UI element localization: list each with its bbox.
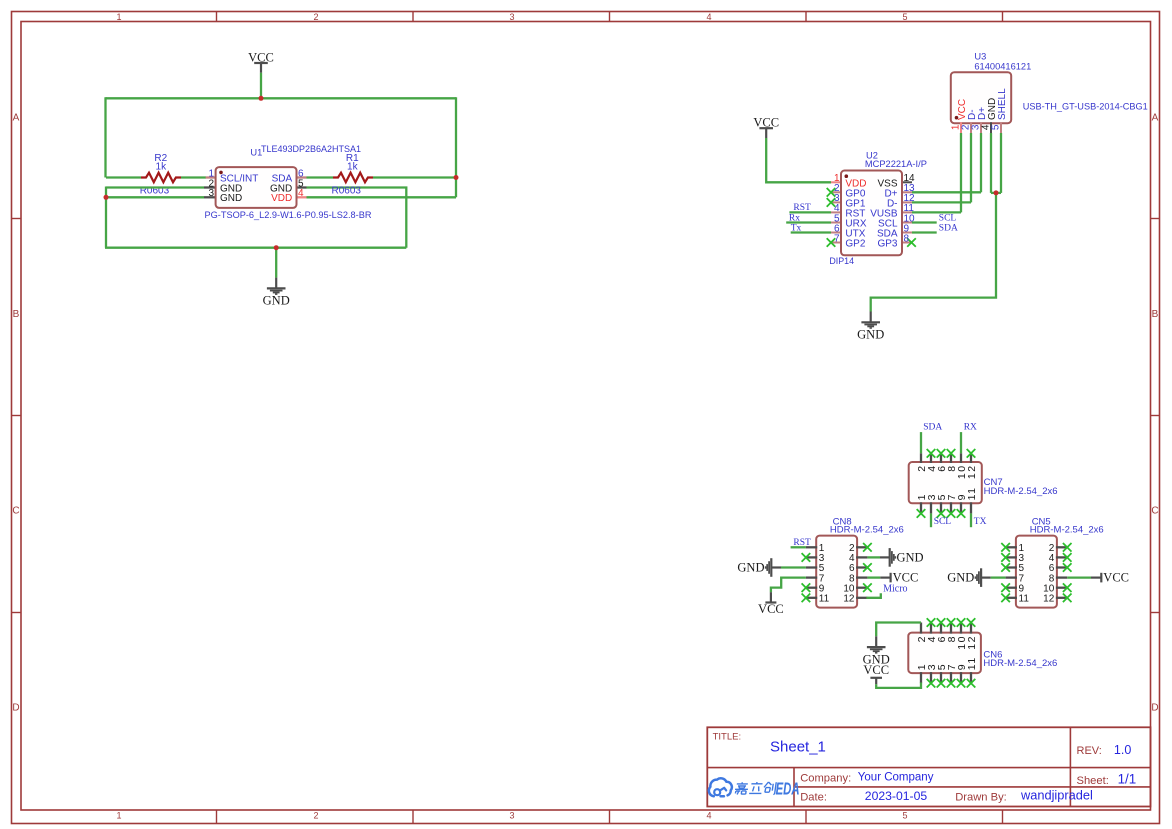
svg-text:Your Company: Your Company	[858, 772, 934, 784]
wire U1 pin 3 to left rail	[106, 196, 204, 198]
wire to GND flag	[275, 248, 277, 278]
frame row tick left	[12, 612, 22, 614]
wire CN8 pin 7 to VCC	[771, 578, 806, 593]
svg-text:RX: RX	[964, 423, 977, 433]
wire USB GND to flag	[871, 193, 996, 312]
no-connect X CN6 bottom	[947, 679, 956, 688]
title block divider vertical rev	[1069, 727, 1071, 806]
svg-text:GND: GND	[897, 550, 924, 564]
U2 pin 1 stub	[831, 181, 842, 183]
U2 pin 10 stub	[901, 222, 912, 224]
no-connect X CN7 top	[967, 449, 976, 458]
frame row tick left	[12, 218, 22, 220]
CN7 pin 5 stub	[940, 502, 942, 513]
wire left drop to R2	[104, 97, 106, 177]
frame column tick bottom	[805, 810, 807, 824]
wire U1 pin 6 to R1	[307, 176, 334, 178]
net label Micro wire (CN8 pin 12)	[866, 593, 880, 598]
svg-text:2023-01-05: 2023-01-05	[865, 789, 928, 803]
svg-text:11: 11	[1019, 594, 1030, 605]
CN8 pin 7 stub	[806, 576, 817, 578]
svg-text:VCC: VCC	[893, 570, 919, 584]
CN5 pin 10 stub	[1056, 587, 1067, 589]
svg-text:Drawn By:: Drawn By:	[955, 791, 1007, 803]
VCC flag CN8 pin 8	[880, 573, 890, 583]
svg-text:12: 12	[966, 464, 978, 479]
no-connect X CN5 left	[1001, 583, 1010, 592]
no-connect X CN6 top	[927, 618, 936, 627]
no-connect X CN8 pin 3	[802, 553, 811, 562]
VCC flag	[759, 128, 773, 138]
svg-text:wandjipradel: wandjipradel	[1020, 788, 1093, 803]
wire CN8 pin 4 to GND	[867, 556, 880, 558]
frame column tick bottom	[609, 810, 611, 824]
junction GND rail	[274, 245, 279, 250]
svg-text:TLE493DP2B6A2HTSA1: TLE493DP2B6A2HTSA1	[261, 144, 361, 154]
svg-text:12: 12	[843, 594, 855, 605]
CN5 pin 11 stub	[1006, 597, 1017, 599]
connector CN5 body	[1016, 536, 1057, 608]
svg-text:11: 11	[966, 486, 978, 500]
wire left rail vertical	[105, 187, 107, 248]
ground GND flag CN8 pin 5	[766, 558, 781, 577]
CN6 pin 11 stub	[970, 672, 972, 683]
svg-text:R0603: R0603	[332, 185, 362, 196]
net label SCL wire (CN7)	[930, 513, 932, 527]
wire VCC to CN6 pin 1	[876, 683, 921, 688]
no-connect X CN5 left	[1001, 594, 1010, 603]
USB connector U3 body	[951, 72, 1011, 123]
U2 pin 9 stub	[901, 232, 912, 234]
svg-text:11: 11	[819, 594, 830, 605]
no-connect X U2 pin 8	[907, 238, 916, 247]
net label Tx wire	[791, 231, 831, 233]
svg-text:1k: 1k	[156, 162, 168, 173]
U1 pin 5 stub	[296, 186, 307, 188]
no-connect X CN7 bottom	[947, 509, 956, 518]
wire GND-SHELL tie	[991, 192, 1001, 194]
U2 pin 7 stub	[831, 242, 842, 244]
svg-text:5: 5	[902, 12, 907, 22]
svg-text:GND: GND	[737, 561, 764, 575]
wire R2 left lead wire	[106, 176, 141, 178]
wire U1 pin 5 to GND rail	[307, 188, 407, 248]
frame row tick left	[12, 415, 22, 417]
no-connect X CN6 bottom	[937, 679, 946, 688]
no-connect X CN7 bottom	[937, 509, 946, 518]
U1 pin 2 stub	[204, 186, 217, 188]
svg-text:Date:: Date:	[800, 791, 827, 803]
no-connect X CN8 pin 9	[802, 583, 811, 592]
logo JLC EDA cloud icon	[709, 778, 732, 796]
svg-text:PG-TSOP-6_L2.9-W1.6-P0.95-LS2.: PG-TSOP-6_L2.9-W1.6-P0.95-LS2.8-BR	[205, 210, 372, 220]
net label SCL wire	[912, 221, 937, 223]
no-connect X CN8 pin 2	[863, 543, 872, 552]
wire GND to CN8 pin 5	[781, 566, 806, 568]
no-connect X CN6 top	[957, 618, 966, 627]
U3 pin 3 stub	[980, 122, 982, 133]
svg-text:GP3: GP3	[877, 239, 897, 250]
U2 pin 13 stub	[901, 191, 912, 193]
wire U1 pin 2 to left rail	[106, 186, 204, 188]
CN6 pin 2 stub	[920, 623, 922, 634]
CN8 pin 10 stub	[856, 587, 867, 589]
wire U2 VUSB to USB VCC	[912, 211, 961, 213]
no-connect X CN5 left	[1001, 543, 1010, 552]
svg-text:C: C	[1151, 506, 1158, 517]
svg-text:A: A	[13, 113, 20, 124]
svg-text:3: 3	[509, 811, 514, 821]
resistor R2	[141, 173, 181, 183]
U3 pin 5 stub	[1000, 122, 1002, 133]
CN8 pin 1 stub	[806, 546, 817, 548]
net label Rx wire	[786, 221, 831, 223]
CN6 pin 12 stub	[970, 623, 972, 634]
no-connect X U2 pin 7	[827, 238, 836, 247]
U2 pin 6 stub	[831, 232, 842, 234]
CN7 pin 8 stub	[950, 453, 952, 463]
CN6 pin 8 stub	[950, 623, 952, 634]
no-connect X CN5 right	[1063, 594, 1072, 603]
CN6 pin 10 stub	[960, 623, 962, 634]
no-connect X CN6 top	[947, 618, 956, 627]
ground GND flag CN5 pin 7	[975, 568, 990, 587]
U1 pin-1 dot	[219, 171, 223, 175]
no-connect X U2 pin 3	[827, 198, 836, 207]
wire U2 D+ to USB	[912, 191, 981, 193]
wire USB SHELL vertical	[1000, 133, 1002, 193]
wire CN6 pin 2 to GND	[876, 623, 921, 637]
svg-text:SDA: SDA	[939, 224, 958, 234]
svg-text:1.0: 1.0	[1114, 743, 1131, 757]
svg-text:EDA: EDA	[776, 779, 800, 799]
junction right rail / R1	[454, 175, 459, 180]
svg-text:TITLE:: TITLE:	[713, 732, 742, 743]
IC U1 body	[216, 167, 297, 208]
logo text JiaLiChuang (vector strokes)	[734, 782, 749, 794]
CN7 pin 11 stub	[970, 502, 972, 513]
CN6 pin 9 stub	[960, 672, 962, 683]
IC U2 body	[841, 171, 902, 256]
connector CN6 body	[908, 633, 981, 674]
junction VCC / top rail	[259, 96, 264, 101]
svg-text:Rx: Rx	[789, 213, 800, 223]
frame column tick top	[805, 12, 807, 22]
CN7 pin 4 stub	[930, 453, 932, 463]
svg-text:4: 4	[298, 188, 304, 199]
frame column tick top	[412, 12, 414, 22]
svg-text:GND: GND	[857, 328, 884, 342]
CN5 pin 12 stub	[1056, 597, 1067, 599]
net label RST wire (CN8)	[791, 546, 806, 548]
svg-text:B: B	[1152, 309, 1159, 320]
svg-text:SDA: SDA	[923, 423, 942, 433]
wire VCC stem	[260, 73, 262, 99]
svg-text:D: D	[12, 703, 19, 714]
svg-text:RST: RST	[793, 538, 811, 548]
no-connect X CN6 top	[967, 618, 976, 627]
svg-text:1: 1	[116, 811, 121, 821]
svg-text:HDR-M-2.54_2x6: HDR-M-2.54_2x6	[1030, 525, 1104, 536]
VCC flag	[254, 63, 268, 73]
svg-text:TX: TX	[974, 517, 987, 527]
wire USB D+ vertical	[980, 133, 982, 192]
frame row tick right	[1151, 415, 1160, 417]
no-connect X CN6 top	[937, 618, 946, 627]
svg-text:1/1: 1/1	[1118, 771, 1137, 786]
frame column tick top	[1002, 12, 1004, 22]
CN8 pin 8 stub	[856, 576, 867, 578]
CN7 pin 2 stub	[920, 453, 922, 463]
svg-text:12: 12	[1043, 594, 1055, 605]
wire GND to CN5 pin 7	[991, 576, 1006, 578]
frame column tick bottom	[412, 810, 414, 824]
svg-text:VCC: VCC	[863, 663, 889, 677]
CN6 pin 6 stub	[940, 623, 942, 634]
title block divider horizontal 1	[707, 767, 1150, 769]
title block outline	[707, 727, 1150, 806]
connector CN8 body	[816, 536, 857, 608]
svg-text:7: 7	[834, 233, 840, 244]
no-connect X CN5 right	[1063, 563, 1072, 572]
svg-text:1: 1	[116, 12, 121, 22]
svg-text:5: 5	[902, 811, 907, 821]
CN7 pin 3 stub	[930, 502, 932, 513]
net label SDA wire (CN7)	[920, 432, 922, 453]
frame column tick top	[216, 12, 218, 22]
CN8 pin 6 stub	[856, 566, 867, 568]
CN8 pin 11 stub	[806, 597, 817, 599]
wire top VCC rail	[106, 97, 457, 99]
frame column tick top	[609, 12, 611, 22]
svg-text:SCL: SCL	[934, 517, 952, 527]
wire USB D- vertical	[970, 133, 972, 202]
frame column tick bottom	[216, 810, 218, 824]
svg-text:A: A	[1152, 113, 1159, 124]
no-connect X CN8 pin 6	[863, 563, 872, 572]
svg-text:SCL: SCL	[939, 213, 957, 223]
no-connect X CN5 right	[1063, 553, 1072, 562]
wire bottom GND rail	[105, 247, 406, 249]
svg-text:12: 12	[966, 635, 978, 650]
svg-text:C: C	[12, 506, 19, 517]
CN6 pin 7 stub	[950, 672, 952, 683]
svg-text:GND: GND	[220, 193, 242, 204]
svg-text:VCC: VCC	[1103, 570, 1129, 584]
no-connect X CN7 top	[947, 449, 956, 458]
svg-text:D: D	[1151, 703, 1158, 714]
svg-text:Company:: Company:	[800, 772, 851, 784]
svg-text:2: 2	[313, 12, 318, 22]
U2 pin 11 stub	[901, 211, 912, 213]
title block divider vertical logo	[793, 768, 795, 807]
CN8 pin 2 stub	[856, 546, 867, 548]
wire right VCC rail vertical	[455, 97, 457, 197]
U2 pin 5 stub	[831, 222, 842, 224]
CN6 pin 3 stub	[930, 672, 932, 683]
U2 pin 2 stub	[831, 191, 842, 193]
CN5 pin 6 stub	[1056, 566, 1067, 568]
no-connect X CN5 left	[1001, 553, 1010, 562]
U3 pin-1 dot	[955, 116, 959, 120]
CN5 pin 2 stub	[1056, 546, 1067, 548]
svg-text:DIP14: DIP14	[829, 256, 854, 266]
U3 pin 1 stub	[960, 122, 962, 133]
frame row tick right	[1151, 612, 1160, 614]
connector CN7 body	[909, 462, 982, 503]
ground GND flag CN8 pin 4	[880, 548, 895, 567]
junction left rail / pin 3	[104, 195, 109, 200]
wire R1 to right rail	[373, 176, 456, 178]
wire U1 pin 4 VDD to right rail	[307, 196, 457, 198]
CN5 pin 9 stub	[1006, 587, 1017, 589]
svg-text:Sheet_1: Sheet_1	[770, 738, 826, 755]
CN5 pin 3 stub	[1006, 556, 1017, 558]
wire USB VCC vertical	[960, 133, 962, 212]
svg-text:3: 3	[208, 188, 214, 199]
no-connect X U2 pin 2	[827, 188, 836, 197]
VCC flag CN8 pin 7	[765, 592, 776, 602]
no-connect X CN7 bottom	[917, 509, 926, 518]
frame row tick right	[1151, 218, 1160, 220]
ground GND flag USB	[861, 312, 880, 329]
frame column tick bottom	[1002, 810, 1004, 824]
no-connect X CN7 top	[927, 449, 936, 458]
CN7 pin 9 stub	[960, 502, 962, 513]
CN7 pin 12 stub	[970, 453, 972, 463]
svg-text:SHELL: SHELL	[997, 88, 1008, 120]
no-connect X CN5 right	[1063, 583, 1072, 592]
CN5 pin 4 stub	[1056, 556, 1067, 558]
net label RST wire	[789, 211, 831, 213]
wire U2 D- to USB	[912, 201, 971, 203]
U1 pin 3 stub	[204, 196, 217, 198]
ground GND flag U1	[267, 278, 286, 295]
svg-text:VCC: VCC	[758, 602, 784, 616]
CN7 pin 10 stub	[960, 453, 962, 463]
CN7 pin 6 stub	[940, 453, 942, 463]
no-connect X CN7 top	[937, 449, 946, 458]
net label TX wire (CN7)	[970, 513, 972, 527]
U3 pin 2 stub	[970, 122, 972, 133]
net label RX wire (CN7)	[960, 432, 962, 453]
svg-text:HDR-M-2.54_2x6: HDR-M-2.54_2x6	[984, 486, 1058, 497]
svg-text:VCC: VCC	[753, 116, 779, 130]
CN6 pin 5 stub	[940, 672, 942, 683]
U2 pin 3 stub	[831, 201, 842, 203]
svg-text:1k: 1k	[347, 162, 359, 173]
svg-text:Micro: Micro	[883, 583, 907, 594]
svg-text:GND: GND	[947, 571, 974, 585]
CN7 pin 7 stub	[950, 502, 952, 513]
VCC flag CN5 pin 8	[1091, 573, 1101, 583]
svg-text:USB-TH_GT-USB-2014-CBG1: USB-TH_GT-USB-2014-CBG1	[1023, 101, 1148, 111]
CN8 pin 12 stub	[856, 597, 867, 599]
svg-text:Tx: Tx	[791, 223, 802, 233]
CN8 pin 3 stub	[806, 556, 817, 558]
CN6 pin 4 stub	[930, 623, 932, 634]
resistor R1	[333, 173, 373, 183]
CN8 pin 4 stub	[856, 556, 867, 558]
no-connect X CN6 bottom	[967, 679, 976, 688]
svg-text:U3: U3	[974, 52, 986, 62]
no-connect X CN6 bottom	[957, 679, 966, 688]
U1 pin 6 stub	[296, 176, 307, 178]
U2 pin-1 dot	[845, 174, 849, 178]
U2 pin 8 stub	[901, 242, 912, 244]
wire R2 to U1 pin 1	[181, 176, 206, 178]
svg-text:2: 2	[313, 811, 318, 821]
svg-text:REV:: REV:	[1077, 745, 1102, 757]
svg-text:HDR-M-2.54_2x6: HDR-M-2.54_2x6	[830, 525, 904, 536]
CN6 pin 1 stub	[920, 672, 922, 683]
U3 pin 4 stub	[990, 122, 992, 133]
CN5 pin 5 stub	[1006, 566, 1017, 568]
svg-text:Sheet:: Sheet:	[1077, 775, 1109, 787]
svg-text:4: 4	[706, 12, 711, 22]
svg-text:8: 8	[904, 233, 910, 244]
CN5 pin 1 stub	[1006, 546, 1017, 548]
no-connect X CN5 left	[1001, 563, 1010, 572]
U2 pin 12 stub	[901, 201, 912, 203]
CN5 pin 7 stub	[1006, 576, 1017, 578]
CN7 pin 1 stub	[920, 502, 922, 513]
U1 pin 1 stub	[206, 176, 217, 178]
svg-text:GP2: GP2	[845, 239, 865, 250]
no-connect X CN8 pin 11	[802, 594, 811, 603]
CN8 pin 9 stub	[806, 587, 817, 589]
CN5 pin 8 stub	[1056, 576, 1067, 578]
wire CN8 pin 8 to VCC	[867, 576, 880, 578]
svg-text:MCP2221A-I/P: MCP2221A-I/P	[865, 159, 927, 169]
wire USB GND vertical	[990, 133, 992, 193]
svg-text:61400416121: 61400416121	[974, 61, 1031, 71]
junction GND/SHELL	[994, 190, 999, 195]
ground GND flag CN6	[867, 636, 886, 653]
svg-text:3: 3	[509, 12, 514, 22]
U2 pin 14 stub	[901, 181, 912, 183]
svg-text:RST: RST	[793, 203, 811, 213]
svg-text:4: 4	[706, 811, 711, 821]
title block divider horizontal 2	[794, 786, 1151, 788]
no-connect X CN7 bottom	[957, 509, 966, 518]
wire CN5 pin 8 to VCC	[1067, 576, 1091, 578]
U1 pin 4 stub	[296, 196, 307, 198]
CN8 pin 5 stub	[806, 566, 817, 568]
svg-text:VCC: VCC	[248, 51, 274, 65]
svg-text:GND: GND	[263, 294, 290, 308]
wire VCC to U2 pin 1	[766, 138, 831, 182]
svg-text:HDR-M-2.54_2x6: HDR-M-2.54_2x6	[983, 658, 1057, 669]
no-connect X CN6 bottom	[927, 679, 936, 688]
svg-text:VDD: VDD	[271, 193, 292, 204]
svg-text:11: 11	[966, 656, 978, 670]
no-connect X CN8 pin 10	[863, 583, 872, 592]
net label SDA wire	[912, 231, 937, 233]
svg-text:B: B	[13, 309, 20, 320]
no-connect X CN5 right	[1063, 543, 1072, 552]
U2 pin 4 stub	[831, 211, 842, 213]
